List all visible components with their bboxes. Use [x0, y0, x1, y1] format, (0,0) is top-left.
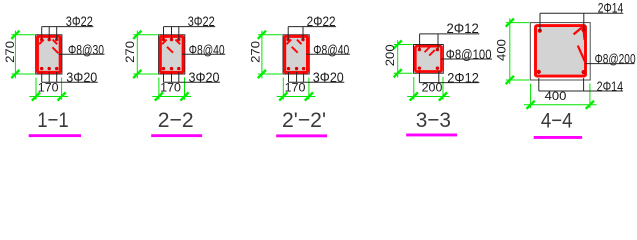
dimension 270 tick marks (section 2'-2'): [258, 31, 266, 39]
dimension 170 line (section 2-2): [152, 96, 191, 98]
svg-text:400: 400: [495, 39, 509, 61]
svg-text:270: 270: [3, 41, 17, 63]
svg-text:4−4: 4−4: [541, 109, 573, 133]
svg-text:200: 200: [383, 44, 397, 66]
svg-text:Φ8@200: Φ8@200: [595, 51, 636, 67]
title underline (section 3-3): [406, 134, 457, 137]
dimension 270 extension lines (section 1-1): [11, 34, 34, 36]
rebar tick dashes (section 1-1): [39, 40, 58, 54]
svg-text:2−2: 2−2: [158, 108, 194, 132]
top bar label leader line (section 4-4): [540, 12, 623, 14]
longitudinal bar dots top (section 4-4): [538, 28, 586, 33]
dimension 170 tick marks (section 2'-2'): [279, 92, 287, 100]
top bar label leader line (section 1-1): [42, 26, 94, 28]
dimension 400 extension lines (section 4-4): [506, 22, 530, 24]
concrete hatch fill (section 4-4): [536, 26, 585, 75]
bottom bar label leader line (section 4-4): [539, 90, 623, 92]
concrete hatch fill (section 2-2): [161, 37, 183, 72]
svg-text:2Φ14: 2Φ14: [598, 0, 624, 16]
concrete outline (section 2-2): [159, 35, 185, 74]
dimension 270 tick marks (section 2-2): [133, 31, 141, 39]
dimension 270 line (section 2'-2'): [261, 31, 263, 79]
stirrup label leader line (section 4-4): [586, 63, 635, 65]
stirrup label leader line (section 1-1): [59, 53, 105, 55]
rebar hook mark (section 4-4): [574, 27, 585, 62]
title underline (section 2'-2'): [276, 134, 327, 137]
dimension 170 extension lines (section 2-2): [158, 78, 160, 100]
stirrup Φ8@40 (section 2'-2'): [285, 36, 308, 72]
svg-text:Φ8@30: Φ8@30: [68, 41, 104, 57]
leader lines to top bars (section 1-1): [42, 27, 57, 40]
dimension 200 tick marks (section 3-3): [410, 92, 418, 100]
bottom bar label leader line (section 2'-2'): [289, 81, 345, 83]
dimension 200 extension lines (section 3-3): [413, 77, 415, 100]
concrete hatch fill (section 2'-2'): [285, 37, 307, 72]
longitudinal bar dots bottom (section 3-3): [418, 67, 439, 70]
rebar tick dashes (section 2'-2'): [287, 40, 302, 53]
dimension 170 tick marks (section 2-2): [155, 92, 163, 100]
dimension 170 line (section 1-1): [29, 96, 68, 98]
longitudinal bar dots bottom (section 4-4): [537, 70, 586, 74]
dimension 170 line (section 2'-2'): [277, 96, 316, 98]
svg-text:270: 270: [248, 41, 262, 63]
leader lines to bottom bars (section 2'-2'): [289, 72, 304, 82]
concrete hatch fill (section 3-3): [416, 47, 441, 71]
leader lines to bottom bars (section 3-3): [419, 71, 438, 82]
longitudinal bar dots top (section 2-2): [162, 38, 181, 41]
title underline (section 4-4): [534, 136, 582, 139]
dimension 270 tick marks (section 1-1): [11, 31, 19, 39]
svg-text:2Φ22: 2Φ22: [307, 13, 336, 29]
longitudinal bar dots bottom (section 1-1): [40, 67, 58, 70]
longitudinal bar dots bottom (section 2-2): [162, 67, 181, 70]
bottom bar label leader line (section 3-3): [419, 82, 479, 84]
leader lines to top bars (section 4-4): [540, 13, 584, 30]
svg-text:3Φ20: 3Φ20: [189, 69, 220, 85]
svg-text:3Φ20: 3Φ20: [66, 69, 97, 85]
svg-text:170: 170: [38, 81, 59, 95]
rebar tick dashes (section 2-2): [162, 40, 180, 53]
svg-text:2Φ12: 2Φ12: [447, 70, 479, 86]
title underline (section 1-1): [29, 134, 81, 137]
stirrup label leader line (section 2'-2'): [306, 53, 350, 55]
dimension 400 line (section 4-4): [524, 104, 597, 106]
dimension 170 extension lines (section 1-1): [35, 78, 37, 100]
svg-text:Φ8@100: Φ8@100: [446, 46, 492, 62]
dimension 200 line (section 3-3): [407, 96, 449, 98]
dimension 200 line (section 3-3): [397, 40, 399, 77]
concrete hatch fill (section 1-1): [38, 37, 60, 72]
longitudinal bar dots top (section 2'-2'): [287, 38, 305, 41]
svg-text:3Φ22: 3Φ22: [66, 13, 93, 29]
top bar label leader line (section 3-3): [420, 33, 480, 35]
svg-text:Φ8@40: Φ8@40: [189, 41, 225, 57]
leader lines to bottom bars (section 2-2): [164, 72, 179, 82]
longitudinal bar dots top (section 3-3): [418, 48, 439, 51]
svg-text:Φ8@40: Φ8@40: [313, 41, 349, 57]
svg-text:2Φ12: 2Φ12: [447, 20, 479, 36]
leader lines to bottom bars (section 4-4): [539, 78, 584, 91]
stirrup Φ8@40 (section 2-2): [160, 36, 183, 72]
concrete outline (section 3-3): [414, 45, 444, 74]
svg-text:1−1: 1−1: [37, 108, 68, 132]
top bar label leader line (section 2'-2'): [288, 26, 336, 28]
leader lines to top bars (section 3-3): [420, 34, 438, 50]
bottom bar label leader line (section 2-2): [164, 81, 221, 83]
stirrup Φ8@30 (section 1-1): [37, 36, 60, 72]
svg-text:3Φ20: 3Φ20: [313, 69, 344, 85]
leader lines to top bars (section 2'-2'): [288, 27, 303, 40]
concrete outline (section 1-1): [36, 35, 62, 74]
dimension 400 extension lines (section 4-4): [530, 84, 532, 109]
dimension 400 tick marks (section 4-4): [506, 19, 514, 27]
svg-text:2'−2': 2'−2': [282, 108, 326, 132]
stirrup Φ8@100 (section 3-3): [415, 46, 441, 71]
top bar label leader line (section 2-2): [164, 26, 216, 28]
dimension 270 extension lines (section 2'-2'): [258, 34, 282, 36]
dimension 170 extension lines (section 2'-2'): [282, 78, 284, 100]
svg-text:3−3: 3−3: [416, 108, 451, 132]
svg-text:170: 170: [160, 81, 181, 95]
dimension 270 line (section 1-1): [14, 31, 16, 79]
dimension 400 line (section 4-4): [509, 18, 511, 84]
dimension 200 tick marks (section 3-3): [394, 40, 402, 48]
svg-text:270: 270: [123, 41, 137, 63]
dimension 270 extension lines (section 2-2): [133, 34, 157, 36]
dimension 170 tick marks (section 1-1): [32, 92, 40, 100]
stirrup label leader line (section 2-2): [182, 53, 225, 55]
svg-text:3Φ22: 3Φ22: [188, 13, 215, 29]
leader lines to bottom bars (section 1-1): [42, 72, 57, 82]
dimension 270 line (section 2-2): [136, 31, 138, 79]
longitudinal bar dots bottom (section 2'-2'): [287, 67, 306, 70]
bottom bar label leader line (section 1-1): [42, 81, 98, 83]
title underline (section 2-2): [151, 134, 202, 137]
concrete outline (section 4-4): [530, 23, 590, 80]
stirrup Φ8@200 (section 4-4): [536, 26, 586, 77]
concrete outline (section 2'-2'): [283, 35, 309, 74]
svg-text:2Φ14: 2Φ14: [597, 78, 624, 94]
longitudinal bar dots top (section 1-1): [40, 38, 58, 41]
rebar tick dashes (section 3-3): [425, 47, 435, 56]
svg-text:170: 170: [285, 81, 306, 95]
dimension 400 tick marks (section 4-4): [527, 101, 535, 109]
dimension 200 extension lines (section 3-3): [394, 44, 413, 46]
stirrup label leader line (section 3-3): [441, 58, 492, 60]
leader lines to top bars (section 2-2): [164, 27, 179, 40]
